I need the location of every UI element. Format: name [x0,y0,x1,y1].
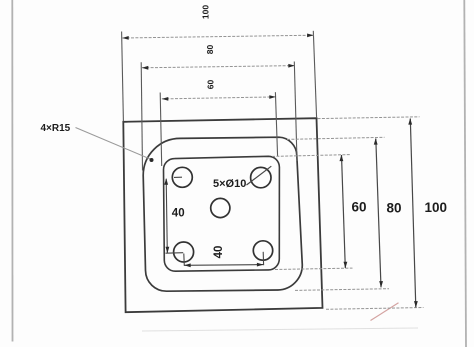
right page border line [464,0,466,347]
dimension line 100 right [410,119,416,308]
extension line 100 right bottom [326,308,424,310]
dimension line 100 top [122,35,313,38]
outer plate square 100x100 [123,118,322,312]
svg-text:40: 40 [213,246,225,259]
center stub top-left hole [174,176,182,178]
inner rounded square 60x60 [163,156,279,271]
extension line 60 top-right [275,92,277,156]
svg-text:4×R15: 4×R15 [41,123,71,134]
svg-text:5×Ø10: 5×Ø10 [213,178,246,190]
left page border line [11,0,13,342]
hole top-left Ø10 [172,167,192,187]
faint paper edge line bottom [142,328,418,331]
extension line 80 right bottom [295,289,389,291]
dimension line 60 top [162,97,276,99]
hole bottom-right Ø10 [253,241,272,260]
leader dot 4xR15 [150,158,154,162]
center stub bottom-right hole (vertical) [262,252,264,265]
stray red pen mark bottom right [371,303,399,321]
hole center Ø10 [211,198,230,217]
center stub bottom-left hole (vertical) [183,254,186,266]
extension line 80 right top [287,137,385,139]
dimension line 40 horizontal [184,264,263,267]
extension line 60 right top [272,155,350,157]
extension line 80 top-right [294,62,297,162]
rounded plate contour 4xR15 [143,137,302,291]
svg-text:60: 60 [352,200,367,215]
dimension line 80 top [142,66,295,68]
svg-text:40: 40 [172,208,185,220]
dimension line 40 vertical [166,179,167,253]
svg-text:80: 80 [387,201,402,216]
extension line 100 top-left [122,32,124,122]
hole top-right Ø10 [251,167,271,187]
svg-text:80: 80 [205,45,215,55]
extension line 100 top-right [313,31,316,118]
extension line 80 top-left [141,62,142,170]
svg-text:100: 100 [425,200,448,215]
hole bottom-left Ø10 [174,242,194,262]
extension line 60 top-left [160,93,162,167]
extension line 60 right bottom [275,268,353,269]
dimension line 60 right [342,155,346,268]
svg-text:100: 100 [200,5,210,19]
leader line 4xR15 [76,128,153,161]
leader line 5xØ10 [247,166,272,185]
dimension line 80 right [376,139,381,288]
center stub bottom-left hole (horizontal) [166,252,184,255]
svg-text:60: 60 [205,80,215,90]
extension line 100 right top [318,117,420,119]
